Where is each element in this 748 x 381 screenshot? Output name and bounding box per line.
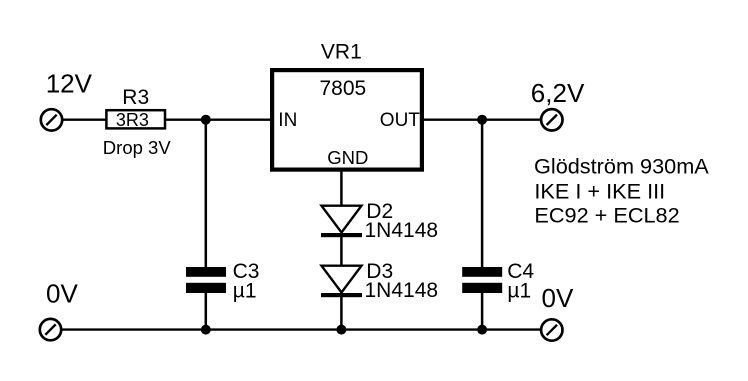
wire OUT to node B — [424, 118, 540, 120]
junction dot C3 to rail — [201, 325, 211, 335]
svg-text:IKE I + IKE III: IKE I + IKE III — [534, 179, 665, 204]
capacitor C4 — [462, 267, 502, 293]
svg-text:EC92 + ECL82: EC92 + ECL82 — [534, 203, 679, 228]
svg-text:µ1: µ1 — [233, 280, 257, 303]
terminal 0V left — [40, 319, 61, 340]
junction dot C4 to rail — [477, 325, 487, 335]
svg-text:6,2V: 6,2V — [531, 78, 585, 108]
svg-text:0V: 0V — [542, 283, 574, 313]
svg-text:1N4148: 1N4148 — [365, 279, 439, 302]
wire node B down to C4 — [481, 120, 484, 268]
wire 12V terminal to R3 — [63, 118, 106, 120]
terminal 6,2V — [541, 109, 562, 130]
ground rail 0V — [63, 328, 541, 330]
svg-text:OUT: OUT — [380, 110, 421, 131]
terminal 0V right — [541, 319, 562, 340]
svg-text:Glödström 930mA: Glödström 930mA — [534, 154, 709, 179]
svg-text:0V: 0V — [46, 279, 78, 309]
svg-text:Drop 3V: Drop 3V — [103, 137, 172, 158]
wire R3 to node A — [166, 118, 271, 120]
node A junction dot — [201, 115, 211, 125]
svg-text:12V: 12V — [46, 68, 93, 98]
diode D2 — [321, 206, 362, 238]
wire GND pin down to D2 — [340, 170, 343, 207]
capacitor C3 — [186, 267, 226, 293]
wire D2 to D3 — [340, 237, 343, 266]
node B junction dot — [477, 115, 487, 125]
resistor R3 — [106, 110, 165, 128]
svg-text:µ1: µ1 — [507, 280, 531, 303]
svg-text:R3: R3 — [122, 86, 149, 109]
svg-text:GND: GND — [327, 147, 368, 168]
svg-text:IN: IN — [278, 110, 297, 131]
terminal 12V — [41, 109, 62, 130]
wire node A down to C3 — [205, 120, 208, 268]
svg-text:1N4148: 1N4148 — [365, 219, 439, 242]
wire C3 to ground rail — [205, 293, 208, 330]
junction dot diodes to rail — [336, 325, 346, 335]
svg-text:3R3: 3R3 — [116, 110, 149, 130]
wire D3 to ground rail — [340, 297, 343, 330]
svg-text:VR1: VR1 — [321, 41, 362, 64]
wire C4 to ground rail — [481, 293, 484, 330]
regulator U VR1 7805 box — [272, 70, 422, 170]
diode D3 — [321, 266, 362, 298]
svg-text:7805: 7805 — [320, 77, 367, 100]
